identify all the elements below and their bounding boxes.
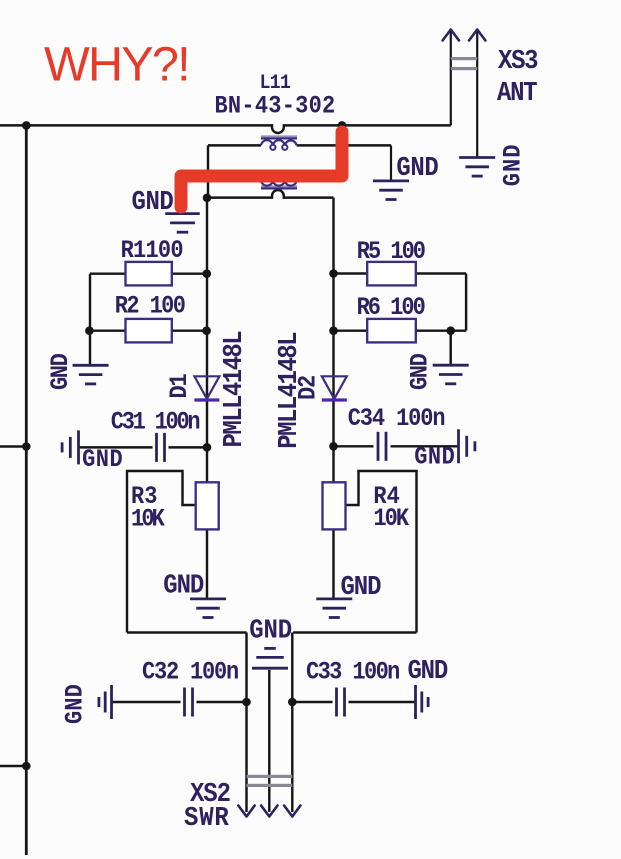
svg-text:C33 100n: C33 100n (306, 659, 399, 686)
svg-text:GND: GND (396, 153, 438, 184)
svg-text:GND: GND (48, 353, 75, 390)
svg-text:R5 100: R5 100 (357, 239, 425, 266)
svg-text:10K: 10K (373, 506, 410, 533)
svg-text:PMLL4148L: PMLL4148L (274, 333, 305, 449)
svg-text:GND: GND (82, 447, 123, 474)
svg-text:C31 100n: C31 100n (111, 409, 200, 436)
svg-text:GND: GND (163, 570, 204, 601)
svg-text:GND: GND (341, 572, 382, 603)
svg-text:D1: D1 (167, 373, 194, 398)
svg-text:R6 100: R6 100 (357, 295, 425, 322)
svg-text:ANT: ANT (497, 78, 537, 109)
svg-text:R1100: R1100 (121, 238, 183, 265)
svg-text:C34 100n: C34 100n (348, 406, 445, 433)
svg-text:10K: 10K (131, 506, 166, 533)
svg-text:WHY?!: WHY?! (44, 38, 189, 92)
svg-text:PMLL4148L: PMLL4148L (219, 332, 250, 448)
svg-text:L11: L11 (260, 71, 291, 94)
svg-text:GND: GND (407, 656, 447, 687)
svg-text:GND: GND (132, 187, 174, 218)
svg-text:GND: GND (414, 445, 455, 472)
svg-text:GND: GND (249, 616, 292, 647)
svg-text:C32 100n: C32 100n (142, 659, 238, 686)
svg-text:SWR: SWR (184, 803, 230, 834)
svg-text:BN-43-302: BN-43-302 (215, 93, 336, 120)
svg-text:GND: GND (63, 684, 90, 724)
svg-text:GND: GND (407, 353, 434, 390)
svg-text:GND: GND (501, 143, 528, 186)
svg-text:XS3: XS3 (498, 46, 537, 77)
svg-text:R2 100: R2 100 (115, 294, 185, 321)
